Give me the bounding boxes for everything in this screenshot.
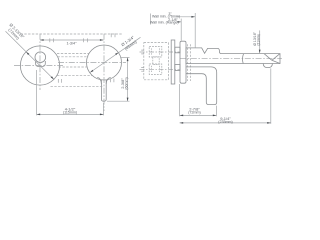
spout joint seam line	[242, 54, 243, 64]
svg-text:(60mm): (60mm)	[125, 77, 129, 89]
front right dim extension bottom	[107, 100, 130, 102]
arrows top dim front	[40, 39, 44, 41]
left flange tick upper	[141, 50, 144, 54]
port centerline upper	[140, 51, 181, 53]
escutcheon circle left (spout)	[20, 46, 59, 85]
mounting tab tick pair 3	[111, 33, 115, 37]
arrows front bottom dim	[37, 114, 41, 116]
side bottom dim1 line	[180, 114, 217, 116]
arrow spout dia	[259, 50, 261, 54]
label front right dim rotated	[120, 77, 129, 89]
centerline vertical right circle	[103, 34, 105, 111]
escutcheon side view	[180, 41, 186, 83]
svg-text:(72mm): (72mm)	[188, 111, 200, 115]
arrows side dim1	[180, 115, 184, 117]
dia dimension line right circle	[90, 37, 140, 72]
upper port hidden	[149, 47, 162, 57]
spout body outline	[186, 48, 280, 64]
aerator bump	[263, 64, 272, 68]
hidden body bottom edge between circles	[59, 66, 88, 68]
label dia right circle	[120, 34, 138, 51]
front bottom dim extension left	[36, 70, 38, 115]
hidden plate bottom dashed line	[51, 85, 103, 87]
lower port hidden	[149, 64, 162, 74]
aerator bump end-on	[36, 61, 46, 67]
hidden body top edge between circles	[58, 56, 89, 58]
label spout dia rotated	[253, 31, 261, 45]
svg-text:(115mm): (115mm)	[63, 111, 77, 115]
arrows side dim2	[180, 122, 184, 124]
spout centerline	[180, 58, 282, 60]
extension escutcheon face	[180, 19, 182, 41]
centerline horizontal left circle	[14, 65, 63, 67]
handle lever side view	[186, 67, 217, 105]
upper stub	[175, 47, 180, 53]
label dia left circle	[5, 22, 26, 43]
handle lever front view (stem down)	[101, 80, 106, 101]
mounting tab tick pair 1	[50, 38, 54, 42]
tip triangle face	[272, 54, 280, 64]
wall plane tick	[149, 14, 151, 25]
arrow wall row2	[177, 21, 181, 23]
mounting tab tick pair 5	[111, 79, 114, 83]
wall min dim row2 line	[178, 21, 181, 23]
svg-text:1-3/4": 1-3/4"	[66, 41, 77, 45]
rough-in valve box hidden	[144, 43, 169, 80]
hidden box bottom edge between circles	[57, 75, 92, 77]
hidden box top edge between circles	[57, 52, 89, 54]
dim top front view line	[40, 39, 104, 41]
side bottom dim1 extension left	[179, 84, 181, 116]
side bottom dim2 line	[180, 122, 271, 124]
hidden plate top dashed line	[21, 33, 123, 35]
front bottom dim extension right	[103, 103, 105, 115]
side bottom dim2 extension right	[270, 68, 272, 123]
arrows front right dim	[127, 58, 129, 62]
arrows dia right circle	[90, 70, 93, 73]
arrows dia left circle	[26, 52, 29, 55]
left flange tick lower	[141, 67, 144, 71]
dia dimension line left circle	[6, 31, 55, 79]
mounting bracket plate	[171, 40, 175, 84]
spout tube circle (end-on)	[35, 52, 46, 63]
spout dia dim line	[259, 30, 261, 52]
aerator slant line	[264, 54, 272, 61]
centerline horizontal right circle	[58, 61, 126, 63]
lever flare fillets	[97, 77, 110, 84]
wall min dim row1 line	[177, 16, 196, 18]
arrow wall row1	[191, 16, 195, 18]
svg-text:Wall min. (Range): Wall min. (Range)	[150, 21, 179, 25]
centerline vertical left circle	[39, 34, 41, 90]
front right dim line	[127, 58, 129, 102]
svg-text:(21mm): (21mm)	[257, 34, 261, 46]
svg-text:(235mm): (235mm)	[218, 120, 232, 124]
valve center detail hidden	[153, 57, 159, 65]
front right dim extension top	[121, 57, 130, 59]
mounting tab tick pair 2	[84, 38, 88, 42]
extension spout root	[194, 13, 196, 47]
front bottom dim line	[37, 113, 104, 115]
mounting tab tick pair 4	[58, 79, 61, 83]
side bottom dim1 extension right	[215, 106, 217, 117]
hidden lines behind spout base	[188, 44, 191, 81]
escutcheon circle right (handle)	[87, 45, 122, 80]
lower stub	[175, 65, 180, 71]
port centerline lower	[140, 68, 181, 70]
